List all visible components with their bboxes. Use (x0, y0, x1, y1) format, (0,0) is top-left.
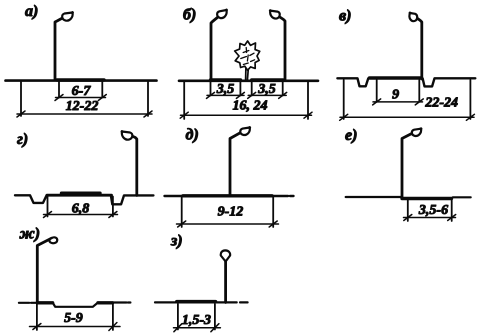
ground B (179, 79, 318, 82)
lamp pole B left (211, 10, 227, 80)
ground A (6, 79, 157, 82)
label з (170, 233, 183, 250)
svg-text:3,5-6: 3,5-6 (418, 203, 448, 218)
lamp head A (62, 13, 72, 21)
svg-text:в): в) (339, 8, 351, 25)
svg-text:г): г) (17, 131, 28, 148)
label ж (19, 226, 41, 243)
svg-text:22-24: 22-24 (424, 96, 458, 111)
lamp head H (221, 250, 230, 261)
lamp head G (49, 237, 57, 243)
dimension 3,5-6 (404, 200, 456, 221)
label г (17, 131, 28, 148)
label а (25, 3, 38, 20)
dimension 9-12 (177, 197, 279, 227)
svg-text:3,5: 3,5 (216, 82, 235, 97)
dimension 1,5-3 (174, 304, 221, 332)
ground H (155, 301, 248, 304)
lamp pole B right (270, 11, 285, 80)
dimension 22-24 (340, 80, 475, 120)
dimension 3,5 left (207, 82, 245, 98)
lamp pole H (224, 262, 227, 303)
label в (339, 8, 351, 25)
svg-text:16, 24: 16, 24 (233, 99, 268, 114)
svg-text:9-12: 9-12 (218, 205, 244, 220)
svg-text:12-22: 12-22 (66, 99, 99, 114)
svg-text:3,5: 3,5 (257, 82, 276, 97)
dimension 9 (373, 80, 424, 105)
lamp pole D (122, 132, 137, 196)
svg-text:1,5-3: 1,5-3 (182, 313, 211, 328)
ground G (19, 303, 130, 307)
label б (183, 7, 196, 24)
lamp head B right (270, 11, 280, 19)
ground D (15, 193, 153, 204)
ground C (337, 78, 475, 86)
svg-text:д): д) (186, 127, 199, 144)
dimension 16,24 (180, 82, 312, 119)
ground F (346, 197, 471, 199)
svg-text:е): е) (345, 127, 357, 144)
svg-text:6,8: 6,8 (72, 202, 90, 217)
lamp head B left (217, 10, 227, 18)
lamp head D (122, 132, 132, 140)
lamp head F (412, 129, 421, 136)
svg-text:ж): ж) (19, 226, 41, 243)
dimension 5-9 (30, 304, 121, 331)
dimension 6-7 (55, 82, 106, 101)
lamp pole F (402, 129, 421, 197)
lamp head C (409, 13, 417, 21)
lamp pole A (55, 13, 73, 81)
lamp pole G (37, 238, 51, 302)
svg-text:9: 9 (392, 88, 399, 103)
svg-text:б): б) (183, 7, 196, 24)
label д (186, 127, 199, 144)
svg-text:6-7: 6-7 (72, 84, 92, 99)
svg-text:5-9: 5-9 (64, 311, 83, 326)
lamp pole E (230, 128, 250, 197)
dimension 12-22 (17, 82, 152, 117)
lamp head E (240, 128, 250, 135)
ground E (165, 195, 294, 198)
label е (345, 127, 357, 144)
svg-text:а): а) (25, 3, 38, 20)
lamp pole C (410, 13, 422, 79)
tree (235, 41, 260, 80)
dimension 3,5 right (248, 82, 287, 98)
svg-text:з): з) (170, 233, 183, 250)
dimension 6,8 (44, 197, 118, 218)
